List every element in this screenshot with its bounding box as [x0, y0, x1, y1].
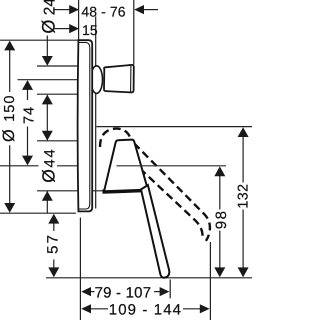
dim 79-107 right tail y291.6 [154, 291, 161, 293]
dim 79-107 left tail y291.6 [91, 291, 95, 293]
ext line dashed-tip x210.4 [209, 242, 211, 320]
arrow 109-144 right [200, 304, 210, 313]
svg-text:Ø44: Ø44 [39, 148, 59, 183]
ext line lever-axis right y165.8 [117, 165, 227, 167]
arrow Ø150 up [4, 41, 15, 51]
dim 109-144 left tail y308.8 [91, 308, 109, 310]
dashed arm lower edge [140, 169, 203, 239]
svg-text:15: 15 [82, 22, 98, 38]
svg-text:132: 132 [236, 184, 252, 209]
arrow Ø24 down [42, 56, 53, 66]
dim 48-76 right tail y9.6 [144, 9, 158, 11]
ext line plate-top y40 [0, 39, 78, 41]
arrow Ø44 down (above hub) [42, 131, 53, 141]
svg-text:48 - 76: 48 - 76 [81, 3, 125, 19]
ext line lever-tip-bottom y277.8 [46, 277, 252, 279]
arrow 48-76 right [134, 5, 144, 14]
dashed hub cap [100, 129, 131, 147]
knob face line [130, 66, 132, 92]
svg-text:Ø 24: Ø 24 [39, 0, 59, 34]
plate rim line [79, 43, 90, 210]
dim 74 line x27.5 [27, 89, 29, 101]
svg-text:109 - 144: 109 - 144 [109, 301, 182, 318]
dim Ø150 line x9.7 [9, 49, 11, 92]
dim chain x47.3 (middle stem) [46, 95, 48, 140]
ext line plate-bottom y213.2 [0, 212, 76, 214]
ext line knob-right x133.8 [133, 0, 135, 65]
dim 109-144 right tail y308.8 [183, 308, 201, 310]
ext line boss-bottom y94 [37, 93, 78, 95]
arrow 98 down [214, 267, 225, 277]
ext line lever-axis left y165.8 [0, 165, 39, 167]
dim 98 line x219.8 [219, 175, 221, 210]
ext line knob-axis y79.5 [18, 79, 79, 81]
svg-text:74: 74 [22, 106, 38, 124]
dim 48-76 left tail y9.6 [54, 9, 70, 11]
dim chain x47.3 (Ø24 stem) [46, 36, 48, 58]
escutcheon plate profile [78, 40, 93, 211]
svg-text:79 - 107: 79 - 107 [95, 284, 152, 301]
arrow 57 up [48, 214, 59, 224]
ext line bottom-left x80.4 [79, 218, 81, 320]
arrow Ø150 down [4, 203, 15, 213]
wall line x95.7 [95, 17, 97, 209]
svg-text:57: 57 [44, 233, 61, 254]
arrow 74 up [22, 80, 33, 90]
arrow Ø44 up (below hub) [42, 191, 53, 201]
arrow 79-107 right [160, 287, 170, 296]
arrow 57 down [48, 267, 59, 277]
dim 15 tail y28.6 [54, 28, 70, 30]
arrow 79-107 left [81, 287, 91, 296]
arrow Ø24 up (below boss) [42, 95, 53, 105]
dim 57 line x53.8 [53, 223, 55, 232]
ext line front-face x78.6 top [78, 0, 80, 40]
knob boss [91, 66, 103, 94]
svg-text:Ø 150: Ø 150 [0, 95, 18, 142]
dashed arm upper edge [134, 143, 210, 241]
svg-text:98: 98 [213, 210, 230, 230]
ext line hub-bottom y190.8 [37, 190, 103, 192]
arrow 15 left [69, 24, 79, 33]
ext line dashed-hub-top y126 [97, 126, 253, 128]
ext line lever-axis mid y165.8 [57, 165, 78, 167]
arrow 48-76 left [69, 5, 79, 14]
lever arm [141, 185, 169, 278]
arrow 132 up [238, 127, 249, 137]
arrow 109-144 left [81, 304, 91, 313]
dim chain x47.3 (lower stem) [46, 191, 48, 213]
ext line hub-top y140.8 [37, 140, 78, 142]
dim 132 line x243.1 [242, 137, 244, 183]
arrow 74 down [22, 156, 33, 166]
dashed lever (raised position) [100, 129, 210, 241]
lever hub cap [104, 140, 227, 278]
ext line boss-top y66 [37, 65, 78, 67]
lever hub base [104, 189, 141, 192]
ext line solid-tip x170.2 [169, 280, 171, 299]
knob body [104, 65, 134, 93]
arrow 132 down [238, 267, 249, 277]
arrow 98 up [214, 166, 225, 176]
